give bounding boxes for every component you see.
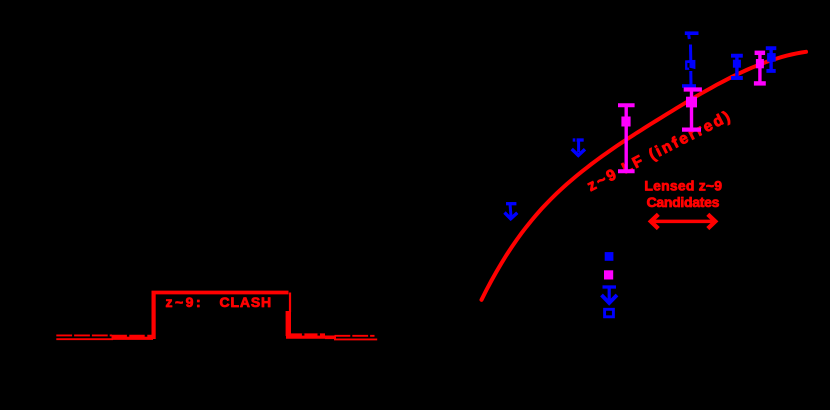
CLASH step function: right riser thin upper part — [289, 293, 291, 313]
blue filled point B3 (x=771) error bar — [766, 48, 777, 71]
CLASH step function: left top thin dashed line — [56, 334, 112, 336]
blue point B3 square — [767, 53, 776, 62]
magenta point M3 (x=760) error bar — [754, 53, 766, 84]
CLASH step function: box top — [152, 291, 289, 295]
magenta point M2 (x=691.5) error bar — [682, 90, 702, 130]
legend: magenta filled square — [604, 270, 613, 279]
svg-text:Candidates: Candidates — [647, 194, 720, 210]
CLASH step function: left bottom thin solid line — [56, 338, 113, 340]
svg-text:CLASH: CLASH — [220, 294, 272, 310]
red LF curve — [482, 52, 807, 300]
legend: blue filled square — [605, 252, 614, 261]
black dash notches over thick baseline — [127, 333, 320, 336]
blue upper-limit arrow A1 (x=510) — [505, 204, 518, 219]
svg-text:Lensed z~9: Lensed z~9 — [644, 177, 722, 193]
CLASH step function: left riser — [152, 292, 156, 340]
blue open-square upper point B1 (x=690) error bar — [682, 33, 699, 86]
CLASH step function: thick left baseline — [112, 335, 154, 340]
blue point B2 square — [733, 60, 741, 68]
blue upper-limit arrow A2 (x=578) — [572, 138, 585, 155]
legend: blue upper-limit symbol — [602, 287, 618, 303]
magenta point M2 square — [686, 97, 697, 108]
legend: blue open square — [605, 309, 614, 317]
CLASH step function: right top thin dashed line — [335, 335, 375, 337]
magenta point M3 square — [756, 59, 764, 68]
blue filled point B2 (x=737) error bar — [731, 56, 743, 78]
CLASH step function: right bottom thin solid line — [334, 338, 377, 340]
svg-text:z~9:: z~9: — [166, 294, 204, 310]
blue square marker B1 (slanted, with black slot and slash) — [685, 60, 695, 70]
CLASH step function: thick right baseline — [286, 333, 325, 338]
magenta point M1 (x=626) error bar — [618, 105, 635, 171]
red double-headed arrow — [651, 214, 716, 228]
CLASH step function: right riser thick lower part — [286, 311, 291, 336]
magenta point M1 square — [621, 117, 630, 127]
